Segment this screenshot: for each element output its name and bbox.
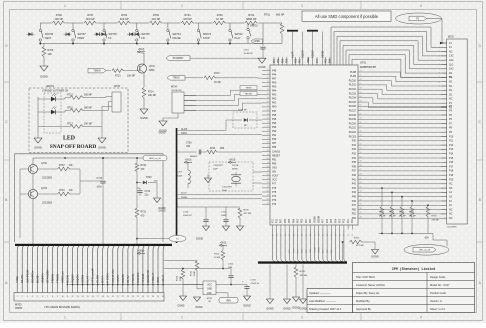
svg-text:61: 61 [360,109,362,111]
svg-text:2: 2 [439,47,440,49]
svg-text:Q703: Q703 [41,187,48,190]
svg-text:U701: U701 [360,61,367,65]
svg-text:P64: P64 [293,218,295,223]
svg-text:P15: P15 [449,157,454,160]
svg-text:20pF: 20pF [222,190,227,192]
svg-text:BLKE: BLKE [35,275,39,283]
svg-text:P41: P41 [352,178,357,181]
svg-text:10: 10 [61,296,63,298]
svg-text:+5V(I): +5V(I) [185,159,192,162]
svg-text:P60: P60 [310,218,312,223]
svg-text:P02: P02 [344,218,346,223]
svg-text:PAUSE: PAUSE [172,37,181,40]
svg-text:PLD11: PLD11 [349,84,357,87]
svg-text:23: 23 [127,296,129,298]
svg-text:SENS: SENS [320,50,324,58]
svg-text:P44: P44 [352,191,357,194]
svg-text:P47: P47 [352,204,357,207]
svg-text:CPM (Shenzhen) Limited: CPM (Shenzhen) Limited [392,267,436,271]
svg-text:PA5: PA5 [272,86,277,89]
svg-text:P72: P72 [272,203,277,206]
svg-text:560 MF: 560 MF [84,94,92,96]
svg-text:DGND: DGND [195,306,202,309]
svg-text:R702: R702 [248,14,255,17]
svg-text:10N: 10N [186,146,191,148]
svg-text:29: 29 [157,296,159,298]
svg-text:30PIN: 30PIN [15,306,22,310]
svg-text:VREF: VREF [308,56,310,63]
svg-text:PLD8: PLD8 [350,71,357,74]
svg-text:R707: R707 [87,14,94,17]
svg-text:STANDBY: STANDBY [172,57,184,60]
svg-text:P20: P20 [449,178,454,181]
svg-text:35: 35 [267,178,269,180]
svg-text:C710: C710 [244,49,250,51]
svg-text:DGND: DGND [196,238,203,241]
svg-text:2: 2 [181,316,183,320]
svg-text:32: 32 [267,166,269,168]
svg-text:PLD22: PLD22 [349,131,357,134]
svg-text:R705: R705 [153,14,160,17]
svg-text:DGND: DGND [371,256,379,259]
svg-text:PA0: PA0 [272,106,277,109]
svg-text:46: 46 [360,174,362,176]
svg-text:P40: P40 [352,174,357,177]
svg-text:DAT: DAT [207,292,212,295]
svg-text:P80: P80 [272,162,277,165]
svg-text:P73: P73 [272,199,277,202]
svg-text:NC: NC [449,187,453,190]
svg-text:VCC: VCC [272,179,277,182]
svg-text:5G: 5G [449,85,452,88]
svg-text:6K8 NP: 6K8 NP [86,18,95,21]
svg-text:+5V(I): +5V(I) [229,159,236,162]
svg-text:(TO MAIN BOARD M403): (TO MAIN BOARD M403) [44,305,79,309]
svg-text:70: 70 [360,70,362,72]
svg-text:10K NP: 10K NP [54,18,63,21]
svg-text:40: 40 [267,198,269,200]
svg-text:47: 47 [360,169,362,171]
svg-text:BOARD+: BOARD+ [30,270,34,283]
svg-text:2: 2 [22,296,23,298]
svg-text:47K MF: 47K MF [409,216,416,218]
svg-text:PA1: PA1 [272,102,277,105]
svg-text:P71: P71 [272,218,274,223]
svg-text:STANDBY & POWER ON: STANDBY & POWER ON [42,90,69,93]
svg-text:42: 42 [360,191,362,193]
svg-text:10uF/6.3V: 10uF/6.3V [244,53,254,55]
svg-text:28: 28 [152,296,154,298]
svg-text:54: 54 [360,139,362,141]
svg-text:P37: P37 [352,170,357,173]
svg-text:VDDM: VDDM [319,216,321,223]
svg-text:DGND: DGND [258,66,265,69]
svg-text:10K: 10K [48,53,53,56]
svg-text:C704: C704 [228,263,234,265]
svg-text:30: 30 [162,296,164,298]
svg-text:38: 38 [360,208,362,210]
svg-text:63: 63 [360,100,362,102]
svg-text:PLD19: PLD19 [349,118,357,121]
svg-text:25: 25 [267,138,269,140]
svg-text:P30: P30 [352,140,357,143]
svg-text:SW702: SW702 [235,33,244,36]
svg-text:4K7 MF: 4K7 MF [244,213,252,215]
svg-text:52: 52 [360,148,362,150]
svg-text:C718: C718 [145,191,151,193]
svg-text:47K MF: 47K MF [379,216,386,218]
svg-text:P66: P66 [285,218,287,223]
svg-text:FF: FF [109,37,113,40]
svg-text:10uH: 10uH [177,176,183,178]
svg-text:P54: P54 [287,58,289,63]
svg-text:11G: 11G [449,63,453,66]
svg-text:RESET: RESET [272,154,281,157]
svg-text:55: 55 [360,135,362,137]
svg-text:PREV: PREV [78,37,85,40]
svg-text:CNVSS: CNVSS [272,150,281,153]
svg-text:51: 51 [360,152,362,154]
svg-text:47u/6.3V: 47u/6.3V [251,283,260,285]
svg-text:DGND: DGND [140,117,148,120]
svg-text:PLD9: PLD9 [350,75,357,78]
svg-text:P51: P51 [352,213,357,216]
svg-text:NC: NC [449,217,453,220]
svg-text:PLD12: PLD12 [349,88,357,91]
svg-text:R720: R720 [244,210,250,212]
svg-text:1: 1 [64,316,66,320]
svg-text:P13: P13 [449,148,454,151]
svg-text:66: 66 [360,88,362,90]
svg-text:10: 10 [267,77,269,79]
svg-text:P31: P31 [352,144,357,147]
svg-text:P57: P57 [274,58,276,63]
svg-text:XLAT: XLAT [86,276,90,283]
svg-text:P36: P36 [352,165,357,168]
svg-text:VFD_on_off: VFD_on_off [419,250,430,252]
svg-text:7G: 7G [449,76,452,79]
svg-text:1: 1 [439,43,440,45]
svg-text:VCC: VCC [207,284,212,286]
svg-text:SW707: SW707 [78,33,87,36]
svg-text:P00: P00 [352,218,354,223]
svg-text:P18: P18 [449,170,454,173]
svg-text:3: 3 [27,296,28,298]
svg-text:P03: P03 [340,218,342,223]
svg-text:50: 50 [360,156,362,158]
svg-text:SNAP OFF BOARD: SNAP OFF BOARD [50,144,97,150]
svg-text:P61: P61 [306,218,308,223]
svg-text:R716: R716 [67,107,73,109]
svg-text:P45: P45 [272,69,277,72]
svg-text:3K3 MF: 3K3 MF [300,275,308,277]
svg-text:2K2 NP: 2K2 NP [152,18,161,21]
svg-text:57: 57 [360,126,362,128]
svg-text:PA2: PA2 [272,98,277,101]
svg-text:SMKIN: SMKIN [40,273,44,283]
svg-text:59: 59 [348,234,350,236]
svg-text:Modified By:: Modified By: [356,299,371,303]
svg-text:10N: 10N [228,267,232,269]
svg-text:20pF: 20pF [213,169,218,171]
svg-text:FR: FR [141,37,145,40]
svg-text:4: 4 [420,316,422,320]
svg-text:P32: P32 [352,148,357,151]
svg-text:P19: P19 [449,174,454,177]
svg-text:12: 12 [71,296,73,298]
svg-text:9: 9 [268,73,269,75]
svg-text:P62: P62 [302,218,304,223]
svg-text:560 MF: 560 MF [84,107,92,109]
svg-text:9G: 9G [449,72,452,75]
svg-text:P50: P50 [352,208,357,211]
svg-text:DGND: DGND [159,133,166,135]
svg-text:P55: P55 [282,58,284,63]
svg-text:+5V(I): +5V(I) [138,250,145,253]
svg-text:10K MF: 10K MF [84,123,93,125]
svg-text:1K NP: 1K NP [216,18,224,21]
svg-text:Version: A: Version: A [430,299,442,303]
svg-text:P42: P42 [352,183,357,186]
svg-text:VCC5: VCC5 [116,275,120,283]
svg-text:14: 14 [267,93,269,95]
svg-text:44: 44 [360,182,362,184]
svg-text:RESETIN: RESETIN [146,270,150,283]
svg-text:SW705: SW705 [141,33,150,36]
svg-text:3: 3 [301,316,303,320]
svg-text:R728: R728 [177,275,179,281]
svg-text:4G: 4G [449,89,452,92]
svg-text:PA4: PA4 [272,90,277,93]
svg-text:-30V: -30V [424,238,429,240]
svg-text:53: 53 [360,143,362,145]
svg-text:D703: D703 [146,177,152,179]
svg-text:P05: P05 [331,218,333,223]
svg-text:25: 25 [137,296,139,298]
svg-text:DGND: DGND [159,211,166,213]
svg-text:P90: P90 [272,138,277,141]
svg-text:14: 14 [82,296,84,298]
svg-text:65: 65 [360,92,362,94]
svg-text:C703 NPO: C703 NPO [213,165,223,167]
svg-text:Design Code:: Design Code: [430,275,446,279]
svg-text:TRKIN: TRKIN [131,274,135,283]
svg-text:PA6: PA6 [272,82,277,85]
svg-text:A050_on_off: A050_on_off [149,157,161,160]
svg-text:PA3: PA3 [272,94,277,97]
svg-text:12: 12 [267,85,269,87]
svg-text:7: 7 [439,68,440,70]
svg-text:X701A: X701A [232,164,239,167]
svg-text:43: 43 [360,186,362,188]
svg-text:VSSM: VSSM [314,216,316,223]
svg-text:33: 33 [267,170,269,172]
svg-text:P96: P96 [272,114,277,117]
svg-text:C706: C706 [186,143,192,145]
svg-text:Sheet: 1 of 4: Sheet: 1 of 4 [430,307,445,311]
svg-text:13G: 13G [449,55,454,58]
svg-text:M704: M704 [171,87,177,89]
svg-text:C713: C713 [183,212,189,214]
svg-text:12: 12 [438,86,440,88]
svg-text:XOUT: XOUT [272,175,279,178]
svg-text:P04: P04 [330,58,332,63]
svg-text:R706: R706 [121,14,128,17]
svg-text:7: 7 [47,296,48,298]
svg-text:37: 37 [360,212,362,214]
svg-text:TRKIN: TRKIN [55,274,59,283]
svg-text:6: 6 [439,64,440,66]
svg-text:R708: R708 [56,14,63,17]
svg-text:11: 11 [67,296,69,298]
svg-text:VFD30: VFD30 [141,273,145,283]
svg-text:30: 30 [267,158,269,160]
svg-text:6: 6 [42,296,43,298]
svg-text:Q701: Q701 [149,65,156,68]
svg-text:5: 5 [439,60,440,62]
svg-text:PLD20: PLD20 [349,122,357,125]
svg-text:DATA: DATA [101,275,105,283]
svg-text:62: 62 [360,105,362,107]
svg-text:PLD15: PLD15 [349,101,357,104]
svg-text:59: 59 [360,118,362,120]
svg-text:12G: 12G [449,59,454,62]
svg-text:20: 20 [267,117,269,119]
svg-text:8050: 8050 [149,69,155,72]
svg-text:P74: P74 [272,195,277,198]
svg-text:SW703: SW703 [203,33,212,36]
svg-text:9: 9 [57,296,58,298]
svg-text:DGND: DGND [299,308,306,311]
svg-text:P52: P52 [295,58,297,63]
svg-text:P63: P63 [298,218,300,223]
svg-text:68: 68 [360,79,362,81]
svg-text:XIN: XIN [272,171,276,174]
svg-text:1: 1 [17,296,18,298]
svg-text:P76: P76 [272,187,277,190]
svg-text:P04: P04 [335,218,337,223]
svg-text:10K MF: 10K MF [127,76,136,78]
svg-text:58: 58 [360,122,362,124]
svg-text:P70: P70 [277,218,279,223]
svg-text:PLD17: PLD17 [349,110,357,113]
svg-text:P35: P35 [352,161,357,164]
svg-text:11: 11 [438,81,440,83]
svg-text:13: 13 [267,89,269,91]
svg-text:5: 5 [37,296,38,298]
svg-text:R704: R704 [185,14,192,17]
svg-text:PA7: PA7 [272,77,277,80]
svg-text:4K7 MF: 4K7 MF [356,245,364,247]
svg-text:24: 24 [132,296,134,298]
svg-text:27: 27 [267,146,269,148]
svg-text:P81: P81 [272,158,277,161]
svg-text:19: 19 [267,113,269,115]
svg-text:SW701: SW701 [250,25,259,28]
svg-text:27: 27 [147,296,149,298]
svg-text:R711: R711 [210,148,216,150]
svg-text:SW704: SW704 [172,33,181,36]
svg-text:37: 37 [267,186,269,188]
svg-text:R713: R713 [115,76,121,78]
svg-text:VSSM: VSSM [314,247,316,253]
svg-text:34: 34 [267,174,269,176]
svg-text:20: 20 [112,296,114,298]
svg-text:R727 NP: R727 NP [238,110,247,112]
svg-text:MUTE: MUTE [20,275,24,284]
svg-text:100n: 100n [97,187,103,189]
svg-text:19: 19 [107,296,109,298]
svg-text:P07: P07 [317,58,319,63]
svg-text:TRKIN: TRKIN [246,88,253,90]
svg-text:P16: P16 [449,161,454,164]
svg-text:P45: P45 [352,196,357,199]
svg-text:P17: P17 [449,165,454,168]
svg-text:All use SMD component if possi: All use SMD component if possible [315,14,379,19]
svg-text:16: 16 [267,101,269,103]
svg-text:47K MF: 47K MF [389,216,396,218]
svg-text:P07: P07 [323,218,325,223]
svg-text:16: 16 [92,296,94,298]
svg-text:R730: R730 [141,165,147,167]
svg-text:R732: R732 [59,165,65,167]
svg-text:A050_on: A050_on [61,271,65,283]
svg-text:+5V(I): +5V(I) [220,242,227,245]
svg-text:C705 NPO: C705 NPO [222,187,232,189]
svg-text:SQCK: SQCK [300,50,304,58]
svg-text:XLAT: XLAT [290,51,294,58]
svg-text:TB&TST: TB&TST [245,94,253,96]
svg-text:R719: R719 [191,270,193,276]
svg-text:STANDBY: STANDBY [45,269,49,283]
svg-text:P86: P86 [272,146,277,149]
svg-text:10K MF: 10K MF [148,95,157,97]
svg-text:4: 4 [420,4,422,8]
svg-text:21: 21 [117,296,119,298]
svg-text:DGND: DGND [177,305,184,308]
svg-text:100K: 100K [180,276,182,281]
svg-text:NC: NC [449,50,453,53]
svg-text:PLD18: PLD18 [349,114,357,117]
svg-text:15: 15 [267,97,269,99]
svg-text:VSS: VSS [272,167,277,170]
svg-text:6G: 6G [449,81,452,84]
svg-text:Customer Name: ALPHA: Customer Name: ALPHA [356,283,385,287]
svg-text:R718: R718 [300,271,306,273]
svg-text:69: 69 [360,75,362,77]
svg-text:17: 17 [267,105,269,107]
svg-text:47K MF: 47K MF [432,220,440,222]
svg-text:P14: P14 [449,153,454,156]
svg-text:P93: P93 [272,126,277,129]
svg-text:P65: P65 [289,218,291,223]
svg-text:C017NFD: C017NFD [447,227,457,229]
svg-text:IR-5V: IR-5V [126,275,130,283]
svg-text:SQSO: SQSO [71,274,75,283]
svg-text:P95: P95 [272,118,277,121]
svg-text:GND: GND [207,289,212,291]
svg-text:PLD10: PLD10 [349,79,357,82]
svg-text:8: 8 [52,296,53,298]
svg-text:R733: R733 [59,190,65,192]
svg-text:Q702: Q702 [41,162,48,165]
svg-text:TROUT: TROUT [151,273,155,283]
svg-text:IRIN: IRIN [226,301,231,303]
svg-text:SENS: SENS [81,275,85,283]
svg-text:P33: P33 [352,153,357,156]
svg-text:1K MF: 1K MF [214,82,221,84]
svg-text:41: 41 [267,203,269,205]
